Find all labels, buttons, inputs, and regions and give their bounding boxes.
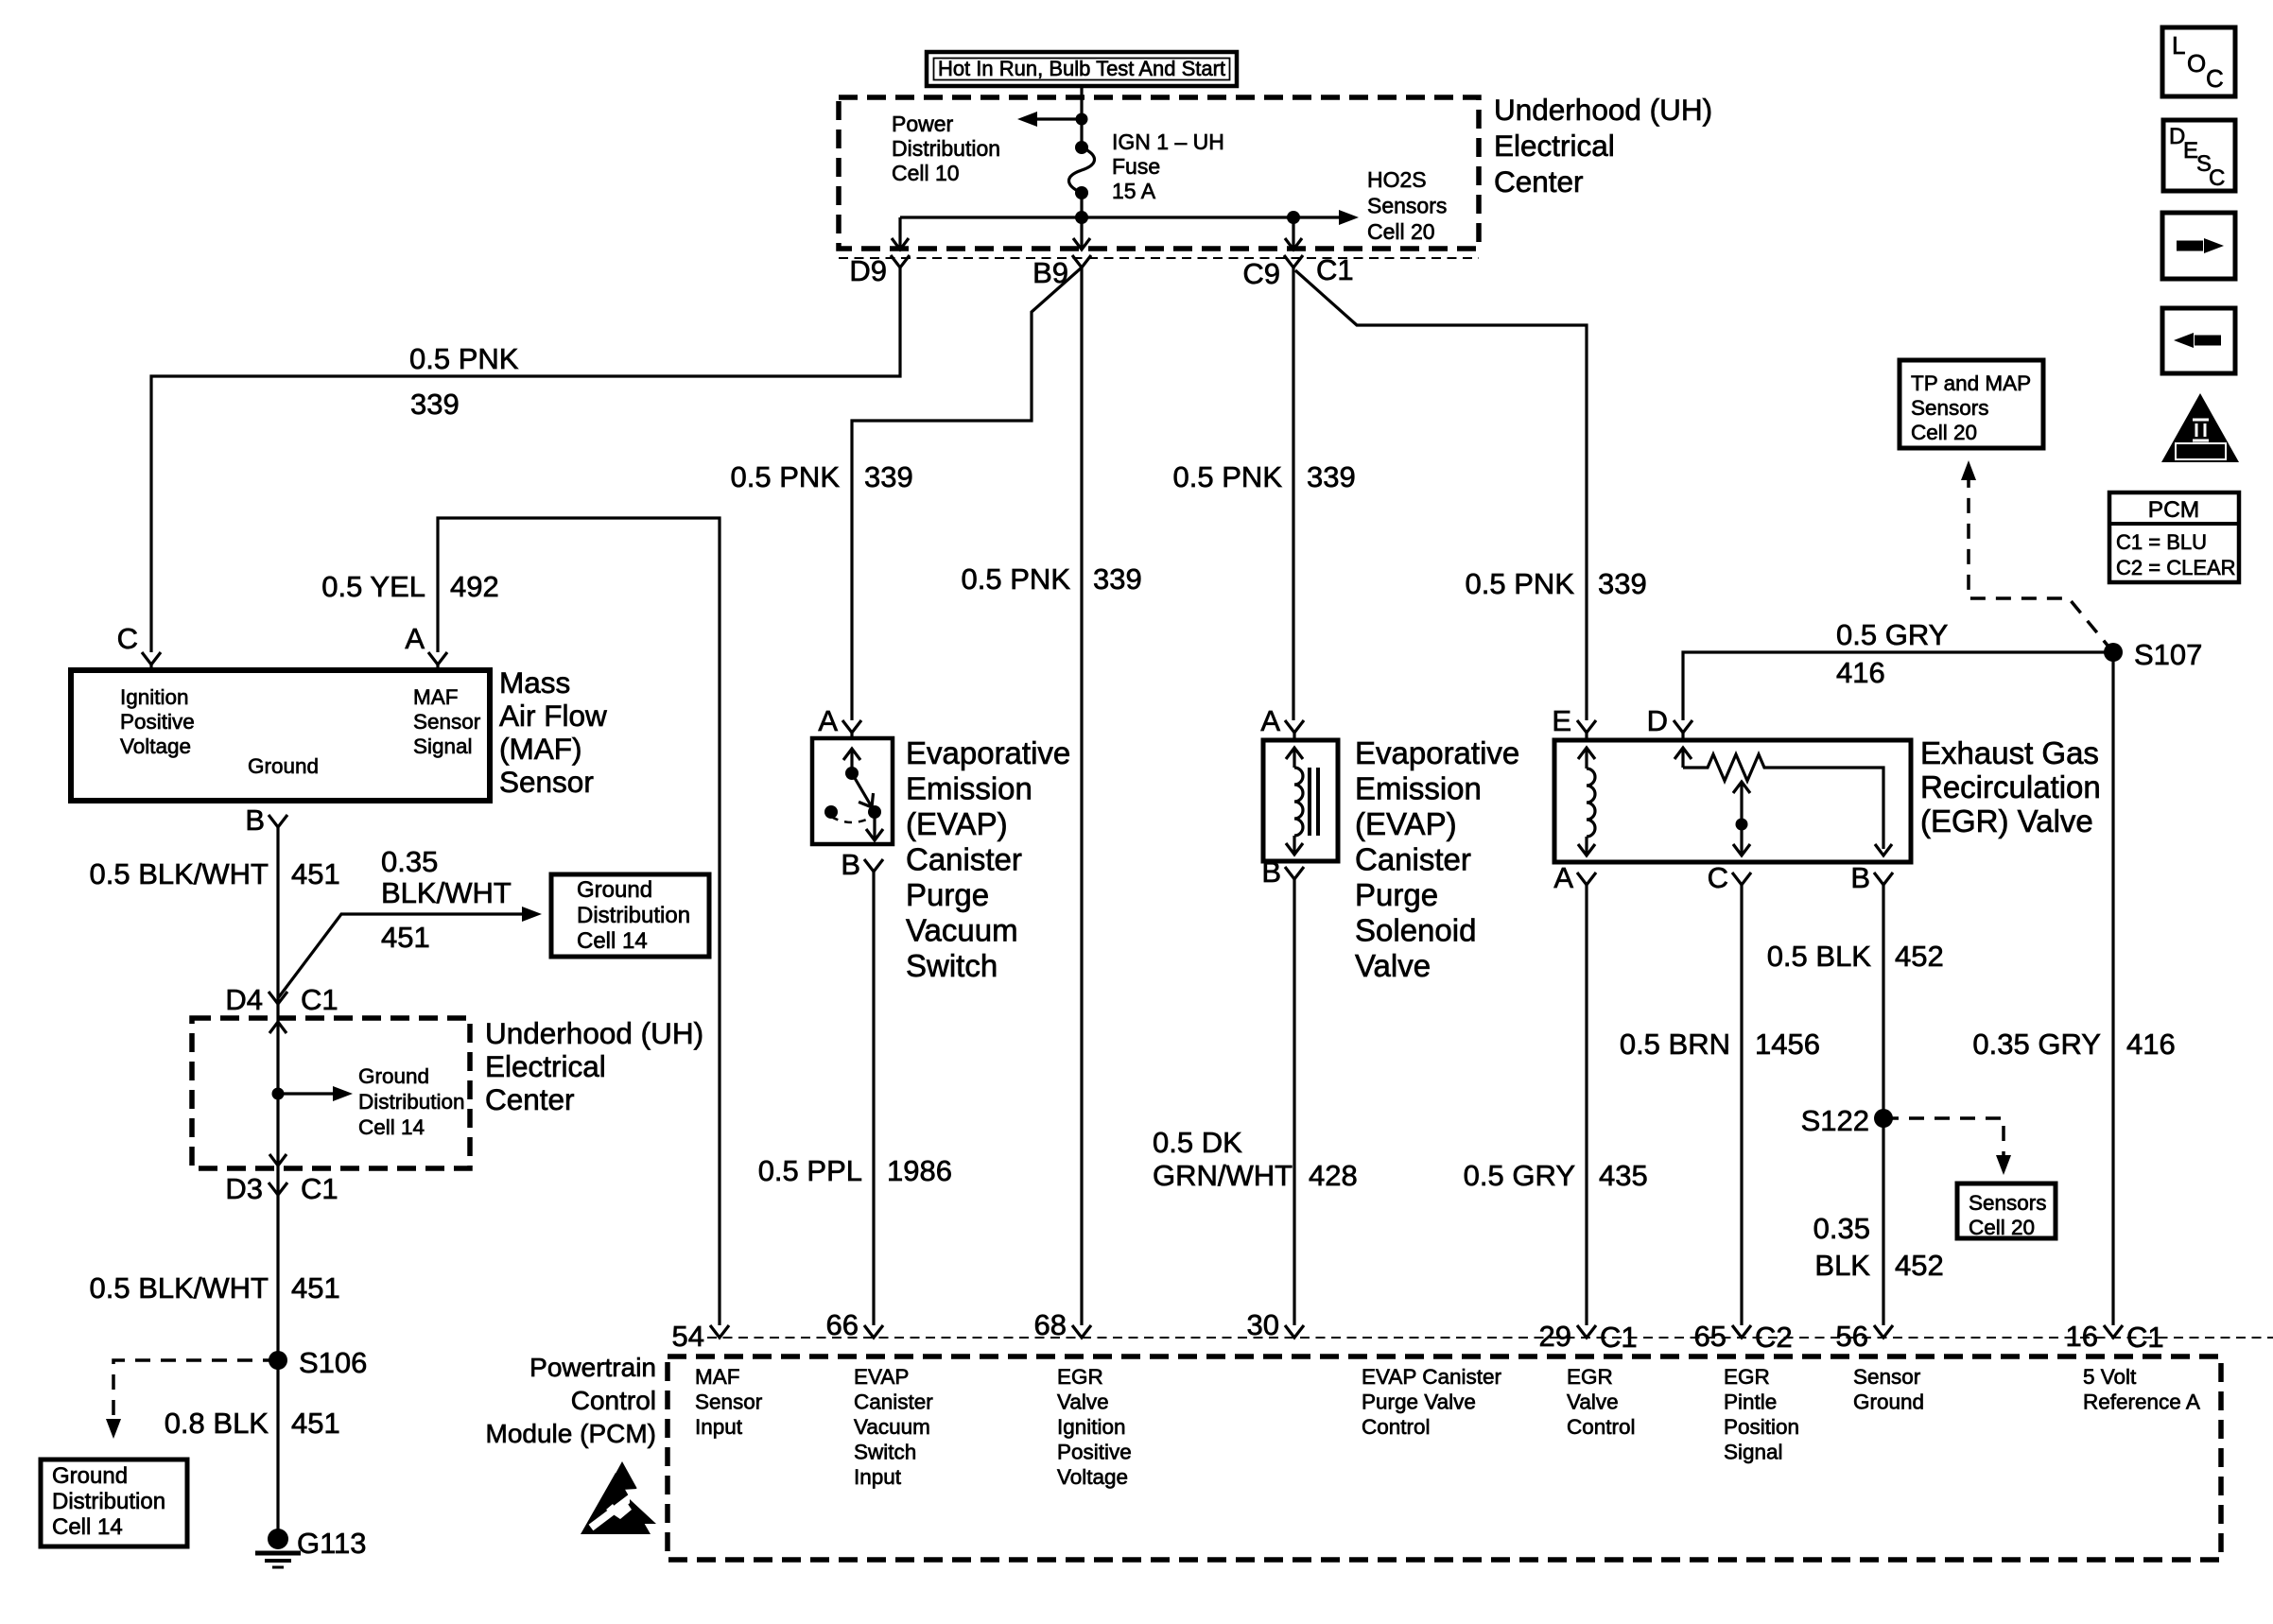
svg-text:C: C bbox=[2206, 64, 2224, 93]
wire: 0.8 BLK 451 to G113 bbox=[276, 1360, 279, 1536]
svg-text:0.35: 0.35 bbox=[1813, 1212, 1870, 1245]
wire: 0.5 BLK/WHT 451 ground run bbox=[276, 827, 279, 1360]
svg-text:1456: 1456 bbox=[1755, 1028, 1820, 1061]
switch symbol bbox=[824, 749, 883, 840]
wire: 0.5 DK GRN/WHT 428 to PCM 30 bbox=[1293, 879, 1295, 1325]
ground distribution cell 14 box (upper) bbox=[551, 874, 709, 957]
pin B of EVAP canister purge vacuum switch bbox=[841, 848, 883, 881]
svg-text:54: 54 bbox=[672, 1320, 704, 1353]
wire: arrow to power distribution cell 10 bbox=[1017, 112, 1082, 127]
svg-text:0.35 GRY: 0.35 GRY bbox=[1972, 1028, 2101, 1061]
svg-text:B: B bbox=[841, 848, 860, 881]
splice S107 bbox=[2104, 638, 2202, 671]
svg-text:B: B bbox=[245, 803, 265, 837]
svg-text:0.5 BRN: 0.5 BRN bbox=[1620, 1028, 1730, 1061]
wire: distribution bus bbox=[900, 216, 1339, 218]
svg-text:29: 29 bbox=[1539, 1320, 1571, 1353]
svg-text:C1 = BLU: C1 = BLU bbox=[2116, 530, 2207, 554]
label: Evaporative Emission (EVAP) Canister Purge Vacuum Switch bbox=[906, 735, 1070, 983]
label: 0.5 PNK 339 (EGR feed) bbox=[1466, 567, 1647, 600]
LOC legend box bbox=[2162, 27, 2235, 96]
svg-text:C9: C9 bbox=[1242, 257, 1280, 290]
pin B of EVAP canister purge solenoid valve bbox=[1261, 855, 1304, 889]
svg-text:PCM: PCM bbox=[2148, 497, 2199, 523]
label: Ignition Positive Voltage bbox=[120, 685, 195, 758]
label: 0.5 BLK/WHT 451 (lower) bbox=[90, 1271, 340, 1304]
label: EGR Valve Ignition Positive Voltage bbox=[1057, 1365, 1132, 1489]
svg-text:428: 428 bbox=[1309, 1159, 1358, 1192]
svg-text:E: E bbox=[1552, 704, 1571, 737]
pin D3 / C1 bbox=[225, 1172, 338, 1205]
label: MAF Sensor Signal bbox=[413, 685, 481, 758]
svg-text:0.5 BLK: 0.5 BLK bbox=[1767, 940, 1872, 973]
svg-text:BLK/WHT: BLK/WHT bbox=[381, 876, 512, 909]
pin C1 bbox=[1316, 253, 1354, 286]
ground G113 bbox=[255, 1527, 367, 1567]
label: 0.5 PNK 339 (solenoid feed) bbox=[1173, 460, 1356, 493]
svg-text:Exhaust GasRecirculation(EGR): Exhaust GasRecirculation(EGR) Valve bbox=[1920, 735, 2101, 838]
svg-text:0.5 PNK: 0.5 PNK bbox=[409, 342, 519, 375]
label: 0.5 PNK 339 (switch feed) bbox=[731, 460, 913, 493]
svg-text:G113: G113 bbox=[297, 1527, 367, 1560]
fuse IGN 1-UH 15 A bbox=[1069, 141, 1095, 199]
label: 0.5 BRN 1456 bbox=[1620, 1028, 1820, 1061]
wire: bus drop to D9 bbox=[892, 217, 909, 250]
label: Exhaust Gas Recirculation (EGR) Valve bbox=[1920, 735, 2101, 838]
svg-text:0.5 GRY: 0.5 GRY bbox=[1836, 618, 1948, 651]
label: 0.35 BLK 452 bbox=[1813, 1212, 1944, 1282]
EGR valve box bbox=[1554, 740, 1911, 862]
pin 56 bbox=[1836, 1320, 1893, 1353]
svg-text:A: A bbox=[1260, 704, 1280, 737]
pin A of EVAP canister purge solenoid valve bbox=[1260, 704, 1304, 741]
label: 0.35 GRY 416 bbox=[1972, 1028, 2175, 1061]
wire: 0.5 GRY 435 to PCM 29 bbox=[1585, 885, 1588, 1325]
wire: dashed lead from S107 to TP and MAP sensors bbox=[1961, 460, 2113, 652]
svg-text:0.8 BLK: 0.8 BLK bbox=[165, 1407, 269, 1440]
wire: 0.5 PNK 339 from D9 to MAF C bbox=[151, 268, 900, 652]
label: 5 Volt Reference A bbox=[2083, 1365, 2200, 1414]
label: EVAP Canister Purge Valve Control bbox=[1362, 1365, 1501, 1439]
back arrow box bbox=[2162, 308, 2235, 373]
svg-text:IgnitionPositiveVoltage: IgnitionPositiveVoltage bbox=[120, 685, 195, 758]
svg-text:A: A bbox=[818, 704, 838, 737]
svg-text:0.5 DK: 0.5 DK bbox=[1153, 1126, 1242, 1159]
DESC legend box bbox=[2163, 120, 2235, 191]
pin 54 bbox=[672, 1320, 729, 1353]
label: IGN 1 - UH Fuse 15 A bbox=[1112, 130, 1224, 203]
wire: fuse output bbox=[1080, 193, 1083, 217]
pin C of EGR valve bbox=[1708, 861, 1751, 894]
svg-text:A: A bbox=[405, 622, 425, 655]
svg-text:S122: S122 bbox=[1801, 1104, 1869, 1137]
splice S106 bbox=[269, 1346, 367, 1379]
label: MAF Sensor Input bbox=[695, 1365, 763, 1439]
svg-text:435: 435 bbox=[1599, 1159, 1648, 1192]
EVAP canister purge solenoid valve box bbox=[1263, 740, 1338, 861]
label: 0.35 BLK/WHT 451 bbox=[381, 845, 512, 954]
pin 16 C1 bbox=[2066, 1320, 2164, 1354]
PCM connector legend box bbox=[2109, 492, 2239, 582]
svg-text:0.5 YEL: 0.5 YEL bbox=[321, 570, 425, 603]
label: 0.5 DK GRN/WHT 428 bbox=[1153, 1126, 1358, 1192]
svg-text:56: 56 bbox=[1836, 1320, 1868, 1353]
label: EGR Valve Control bbox=[1567, 1365, 1636, 1439]
EGR coil symbol bbox=[1578, 748, 1595, 855]
svg-text:0.5 BLK/WHT: 0.5 BLK/WHT bbox=[90, 1271, 269, 1304]
svg-text:C2 = CLEAR: C2 = CLEAR bbox=[2116, 556, 2236, 579]
wire: 0.35 BLK/WHT 451 branch to ground distribution bbox=[278, 907, 542, 998]
pin D4 / C1 bbox=[225, 983, 338, 1016]
label: 0.5 PPL 1986 bbox=[758, 1154, 952, 1187]
pin A of EVAP canister purge vacuum switch bbox=[818, 704, 861, 739]
ESD sensitive device symbol bbox=[581, 1461, 656, 1534]
svg-text:L: L bbox=[2172, 31, 2185, 60]
svg-text:416: 416 bbox=[1836, 656, 1885, 689]
wire: dashed lead from S122 to sensors cell 20 bbox=[1883, 1118, 2011, 1175]
svg-text:GRN/WHT: GRN/WHT bbox=[1153, 1159, 1293, 1192]
wire: 0.5 PNK 339 from B9 to PCM 68 bbox=[1080, 268, 1083, 1325]
label: EGR Pintle Position Signal bbox=[1724, 1365, 1799, 1464]
svg-text:C: C bbox=[1708, 861, 1728, 894]
pin D9 bbox=[849, 254, 910, 287]
svg-text:D4: D4 bbox=[225, 983, 263, 1016]
wire: arrow into D4 bbox=[269, 1022, 286, 1033]
pin B of EGR valve bbox=[1850, 861, 1893, 894]
wire: 0.35 GRY 416 from S107 to PCM 16 bbox=[2111, 652, 2114, 1325]
pin B9 bbox=[1032, 255, 1091, 289]
svg-text:452: 452 bbox=[1895, 1249, 1944, 1282]
EGR pintle position potentiometer bbox=[1674, 748, 1892, 855]
label: Underhood (UH) Electrical Center bbox=[1494, 93, 1712, 199]
EVAP canister purge vacuum switch box bbox=[812, 738, 893, 844]
svg-text:B: B bbox=[1261, 855, 1281, 889]
label: 0.5 GRY 435 bbox=[1464, 1159, 1648, 1192]
svg-text:65: 65 bbox=[1694, 1320, 1726, 1353]
pin 68 bbox=[1034, 1308, 1091, 1341]
svg-text:C: C bbox=[117, 622, 138, 655]
svg-text:C1: C1 bbox=[301, 1172, 338, 1205]
label: 0.8 BLK 451 bbox=[165, 1407, 340, 1440]
svg-text:D3: D3 bbox=[225, 1172, 263, 1205]
wire: 0.5 BLK 452 sensor ground to PCM 56 bbox=[1882, 885, 1884, 1325]
svg-text:339: 339 bbox=[1307, 460, 1356, 493]
label: 0.5 BLK/WHT 451 (upper) bbox=[90, 857, 340, 890]
wire: ignition feed into fuse bbox=[1080, 86, 1083, 147]
sensors cell 20 box bbox=[1957, 1183, 2056, 1239]
ground distribution cell 14 box (lower) bbox=[41, 1460, 187, 1546]
node: bus junction at fuse bbox=[1075, 211, 1088, 224]
pin 30 bbox=[1247, 1308, 1304, 1341]
wire: arrow to ground distribution cell 14 (inner) bbox=[278, 1086, 353, 1101]
svg-text:D9: D9 bbox=[849, 254, 887, 287]
svg-text:0.35: 0.35 bbox=[381, 845, 438, 878]
svg-text:A: A bbox=[1553, 861, 1573, 894]
label: Power Distribution Cell 10 bbox=[892, 112, 1000, 185]
svg-text:B: B bbox=[1850, 861, 1870, 894]
svg-text:Ground: Ground bbox=[248, 754, 319, 778]
node: junction to power distribution bbox=[1076, 113, 1088, 126]
feed box: Hot In Run, Bulb Test And Start bbox=[927, 52, 1237, 86]
label: Ground bbox=[248, 754, 319, 778]
svg-text:C1: C1 bbox=[2126, 1321, 2164, 1354]
TP and MAP sensors cell 20 box bbox=[1900, 360, 2043, 448]
label: Mass Air Flow (MAF) Sensor bbox=[499, 665, 607, 799]
svg-text:C1: C1 bbox=[1600, 1321, 1638, 1354]
pin C of MAF sensor bbox=[117, 622, 161, 671]
pin A of EGR valve bbox=[1553, 861, 1596, 894]
wire: 0.5 YEL 492 from MAF A to PCM 54 bbox=[438, 518, 720, 1325]
svg-text:0.5 GRY: 0.5 GRY bbox=[1464, 1159, 1575, 1192]
EGR wiper bbox=[1733, 782, 1750, 855]
pin E of EGR valve bbox=[1552, 704, 1596, 741]
label: 0.5 YEL 492 bbox=[321, 570, 498, 603]
wire: bus drop to C9 bbox=[1285, 217, 1302, 250]
svg-text:16: 16 bbox=[2066, 1320, 2098, 1353]
svg-text:66: 66 bbox=[826, 1308, 859, 1341]
svg-text:339: 339 bbox=[1598, 567, 1647, 600]
svg-text:D: D bbox=[1647, 704, 1668, 737]
svg-text:339: 339 bbox=[864, 460, 913, 493]
label: Underhood (UH) Electrical Center (left) bbox=[485, 1016, 703, 1116]
solenoid coil symbol bbox=[1286, 748, 1318, 855]
wire: 0.5 PPL 1986 to PCM 66 bbox=[872, 872, 875, 1325]
label: Sensor Ground bbox=[1853, 1365, 1924, 1414]
svg-text:C: C bbox=[2209, 165, 2225, 191]
svg-text:C1: C1 bbox=[301, 983, 338, 1016]
svg-text:S106: S106 bbox=[299, 1346, 367, 1379]
svg-text:BLK: BLK bbox=[1814, 1249, 1870, 1282]
svg-text:1986: 1986 bbox=[887, 1154, 952, 1187]
svg-text:Hot In Run, Bulb Test And Star: Hot In Run, Bulb Test And Start bbox=[938, 57, 1225, 80]
splice S122 bbox=[1801, 1104, 1893, 1137]
svg-text:451: 451 bbox=[291, 857, 340, 890]
connector boundary line bbox=[839, 257, 1479, 259]
svg-text:O: O bbox=[2187, 49, 2206, 78]
PCM connector boundary line bbox=[707, 1337, 2273, 1339]
label: Powertrain Control Module (PCM) bbox=[486, 1353, 656, 1448]
pin A of MAF sensor bbox=[405, 622, 447, 671]
svg-text:451: 451 bbox=[291, 1407, 340, 1440]
pin 65 C2 bbox=[1694, 1320, 1793, 1354]
wire: 0.5 BRN 1456 to PCM 65 bbox=[1740, 885, 1743, 1325]
node: bus junction at C9 bbox=[1287, 211, 1300, 224]
svg-text:C2: C2 bbox=[1755, 1321, 1793, 1354]
svg-text:451: 451 bbox=[381, 921, 430, 954]
svg-text:451: 451 bbox=[291, 1271, 340, 1304]
label: 0.5 PNK 339 (PCM 68 run) bbox=[962, 562, 1142, 596]
svg-text:OBD II: OBD II bbox=[2178, 445, 2222, 460]
label: 0.5 PNK 339 (D9 run) bbox=[409, 342, 519, 421]
label: Evaporative Emission (EVAP) Canister Purge Solenoid Valve bbox=[1355, 735, 1519, 983]
label: 0.5 BLK 452 bbox=[1767, 940, 1944, 973]
node: ground distribution tap bbox=[272, 1088, 285, 1100]
forward arrow box bbox=[2162, 213, 2235, 279]
svg-text:0.5 PNK: 0.5 PNK bbox=[731, 460, 841, 493]
wire: 0.5 PNK 339 from B9 to vacuum switch bbox=[852, 268, 1082, 720]
wire: dashed branch from S106 to ground distribution bbox=[106, 1360, 278, 1439]
svg-text:S107: S107 bbox=[2134, 638, 2202, 671]
pin 29 C1 bbox=[1539, 1320, 1638, 1354]
underhood electrical center dashed box (left) bbox=[192, 1018, 470, 1168]
pin C9 bbox=[1242, 255, 1303, 290]
wire: 0.5 PNK 339 from C9 to solenoid A bbox=[1292, 268, 1294, 720]
wire: arrow out to D3 bbox=[269, 1154, 286, 1166]
powertrain control module dashed box bbox=[668, 1356, 2221, 1560]
svg-text:SensorGround: SensorGround bbox=[1853, 1365, 1924, 1414]
label: EVAP Canister Vacuum Switch Input bbox=[854, 1365, 933, 1489]
svg-text:416: 416 bbox=[2126, 1028, 2176, 1061]
svg-text:0.5 PNK: 0.5 PNK bbox=[962, 562, 1071, 596]
wire: EGR D to S107 0.5 GRY 416 bbox=[1683, 652, 2113, 720]
svg-text:339: 339 bbox=[1093, 562, 1142, 596]
svg-text:68: 68 bbox=[1034, 1308, 1067, 1341]
pin D of EGR valve bbox=[1647, 704, 1692, 741]
svg-text:C1: C1 bbox=[1316, 253, 1354, 286]
svg-text:339: 339 bbox=[410, 388, 460, 421]
label: 0.5 GRY 416 bbox=[1836, 618, 1948, 689]
wire: 0.5 PNK 339 from C1 to EGR E bbox=[1295, 270, 1587, 720]
pin B of MAF sensor bbox=[245, 803, 287, 837]
svg-text:452: 452 bbox=[1895, 940, 1944, 973]
svg-text:0.5 PNK: 0.5 PNK bbox=[1466, 567, 1575, 600]
wire: bus drop to B9 bbox=[1073, 217, 1090, 250]
svg-text:0.5 PPL: 0.5 PPL bbox=[758, 1154, 862, 1187]
wire: arrow to HO2S sensors cell 20 bbox=[1339, 210, 1359, 225]
pin 66 bbox=[826, 1308, 883, 1341]
underhood electrical center dashed box (top) bbox=[839, 97, 1479, 249]
svg-text:0.5 PNK: 0.5 PNK bbox=[1173, 460, 1283, 493]
svg-text:0.5 BLK/WHT: 0.5 BLK/WHT bbox=[90, 857, 269, 890]
MAF sensor box bbox=[71, 670, 490, 801]
label: Ground Distribution Cell 14 (inner) bbox=[358, 1064, 465, 1139]
OBD II symbol bbox=[2161, 393, 2239, 462]
svg-text:30: 30 bbox=[1247, 1308, 1279, 1341]
svg-text:492: 492 bbox=[450, 570, 499, 603]
label: HO2S Sensors Cell 20 bbox=[1367, 167, 1447, 244]
